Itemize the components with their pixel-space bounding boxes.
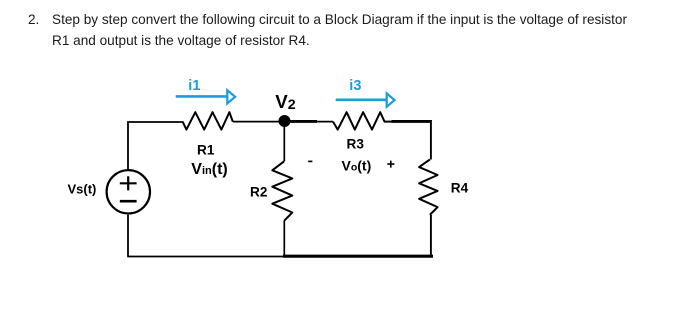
label R2: [250, 185, 268, 200]
wire V2 to R3 thin: [316, 121, 333, 123]
resistor R1 zigzag: [183, 112, 233, 129]
svg-text:Vs(t): Vs(t): [68, 182, 97, 197]
wire top-left corner from source to R1: [128, 122, 183, 169]
svg-text:V2: V2: [275, 91, 295, 113]
wire bottom left (thin): [127, 256, 284, 258]
label i3: [349, 78, 361, 94]
polarity plus near R4: [387, 161, 394, 168]
svg-text:R3: R3: [347, 137, 365, 152]
wire V2 down to R2: [283, 126, 285, 161]
label R3: [347, 137, 365, 152]
wire right vertical bottom: [430, 215, 432, 255]
label i1: [188, 78, 200, 94]
label R1: [197, 143, 215, 158]
node V2 junction dot: [279, 115, 291, 127]
svg-text:Vin(t): Vin(t): [191, 161, 227, 178]
voltage source Vs circle: [107, 170, 150, 213]
wire R2 bottom: [283, 221, 285, 256]
wire R1 to node V2: [233, 121, 280, 123]
label Vs(t): [68, 182, 97, 197]
wire bottom right (thick): [283, 255, 433, 258]
svg-text:R1: R1: [197, 143, 215, 158]
svg-text:Vo(t): Vo(t): [342, 158, 372, 174]
wire source bottom to bottom-left corner: [127, 215, 129, 257]
wire V2 to R3 thick: [289, 120, 317, 123]
svg-text:R2: R2: [250, 185, 268, 200]
polarity minus near R2: [308, 160, 312, 162]
svg-text:R4: R4: [451, 180, 469, 195]
label V2: [275, 91, 295, 113]
resistor R4 zigzag: [419, 160, 438, 215]
svg-text:i3: i3: [349, 78, 361, 94]
current arrow i1: [176, 90, 235, 103]
svg-text:i1: i1: [188, 78, 200, 94]
label Vo(t) with polarity: [342, 158, 372, 174]
label R4: [451, 180, 469, 195]
current arrow i3: [336, 93, 395, 106]
wire R3 to top-right corner thick: [392, 120, 432, 123]
resistor R2 zigzag: [272, 161, 292, 221]
problem statement text: [28, 9, 39, 30]
wire right vertical top: [430, 121, 432, 159]
resistor R3 zigzag: [333, 112, 392, 129]
label Vin(t): [191, 161, 227, 178]
